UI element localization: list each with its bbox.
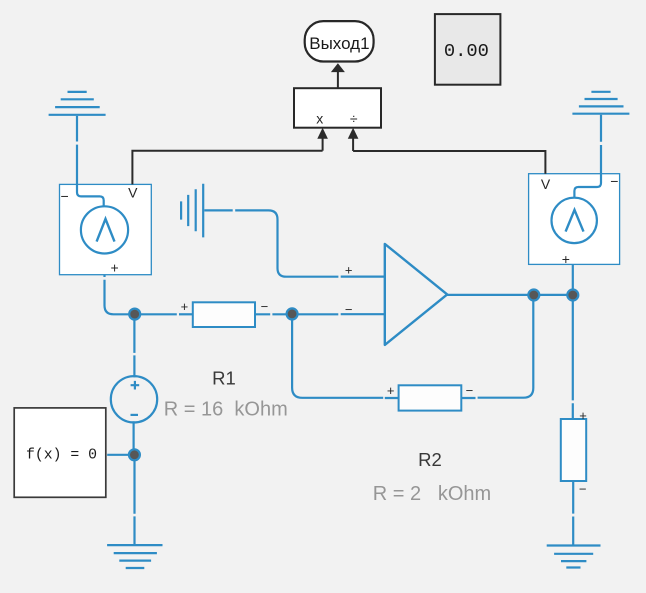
- svg-text:x: x: [316, 111, 323, 127]
- svg-text:R1: R1: [212, 368, 236, 389]
- pin label minus V1: [131, 414, 139, 416]
- node N4: [567, 290, 578, 301]
- wire node N1 down to source V1: [133, 314, 135, 377]
- wire GND2 to op-amp non-inverting input: [204, 210, 384, 276]
- node N2: [287, 308, 298, 319]
- node N5: [129, 449, 140, 460]
- node N1: [129, 309, 140, 320]
- svg-text:Выход1: Выход1: [309, 34, 369, 53]
- pin label plus V1: [131, 381, 140, 390]
- divider block U4: [294, 88, 381, 128]
- svg-text:+: +: [387, 383, 395, 398]
- svg-text:+: +: [345, 262, 353, 277]
- voltmeter U3 box (right): [529, 174, 620, 265]
- arrow into divider x input: [322, 138, 324, 151]
- ground GND2 (middle, rotated): [181, 184, 203, 238]
- svg-text:R = 16 kOhm: R = 16 kOhm: [164, 399, 288, 421]
- svg-text:R2: R2: [418, 449, 442, 470]
- svg-text:−: −: [466, 383, 474, 398]
- resistor R1 left stub: [179, 313, 193, 315]
- voltmeter U1 dial circle: [81, 206, 128, 253]
- wire V1 to node N5 and GND5: [133, 421, 136, 545]
- wire inside U1: [77, 184, 104, 206]
- wire inside U3: [574, 174, 601, 198]
- wire U1 V output to divider (black): [132, 151, 322, 185]
- voltmeter U1 box (left): [60, 184, 152, 274]
- wire R2 right up to node N3: [461, 295, 533, 398]
- svg-text:−: −: [579, 482, 587, 497]
- ground GND3 (top right, inverted): [572, 92, 629, 114]
- svg-text:−: −: [610, 173, 618, 189]
- svg-text:V: V: [128, 185, 138, 201]
- source V1 circle: [111, 376, 157, 422]
- node N3: [528, 290, 539, 301]
- svg-text:f(x) = 0: f(x) = 0: [26, 448, 97, 464]
- svg-text:+: +: [111, 260, 119, 276]
- wire R3 to GND4: [572, 481, 574, 545]
- voltmeter U1 lambda glyph: [97, 219, 115, 242]
- svg-text:−: −: [261, 299, 269, 314]
- wire U3 V output to divider (black): [353, 151, 545, 174]
- svg-text:−: −: [61, 188, 69, 204]
- svg-text:−: −: [345, 302, 353, 317]
- arrow into divider divide input: [352, 138, 354, 151]
- wire GND3 to voltmeter U3: [600, 115, 602, 174]
- svg-text:+: +: [579, 408, 587, 423]
- wire node N2 to op-amp inverting input: [292, 313, 385, 315]
- wire R1 right to node N2: [255, 313, 291, 315]
- wire node N4 up to voltmeter U3: [572, 264, 574, 295]
- ground GND5 (bottom left): [107, 545, 162, 568]
- output port Выход1: [305, 21, 374, 61]
- svg-text:+: +: [562, 251, 570, 267]
- wire F1 to node N5: [107, 454, 134, 456]
- wire op-amp output to node N3 and N4: [447, 294, 573, 296]
- ground GND1 (top left, inverted): [49, 92, 106, 115]
- block F1 f(x)=0 box: [14, 408, 106, 497]
- resistor R3 body (vertical right): [561, 419, 586, 481]
- resistor R1 body: [193, 302, 255, 327]
- svg-text:V: V: [541, 176, 551, 192]
- svg-text:÷: ÷: [350, 111, 358, 127]
- svg-text:R = 2 kOhm: R = 2 kOhm: [373, 483, 491, 505]
- wire U1 plus to node N1: [105, 275, 177, 315]
- wire node N2 down to R2: [292, 314, 399, 398]
- voltmeter U3 dial circle: [552, 198, 597, 243]
- svg-text:+: +: [181, 299, 189, 314]
- svg-text:0.00: 0.00: [444, 40, 489, 62]
- display block 0.00: [435, 14, 501, 85]
- voltmeter U3 lambda glyph: [566, 210, 584, 232]
- arrow divider to output port: [337, 72, 339, 89]
- wire node N4 down to resistor R3: [572, 295, 574, 419]
- op-amp U2 triangle: [385, 244, 447, 345]
- ground GND4 (bottom right): [547, 546, 601, 568]
- resistor R2 body: [399, 385, 462, 410]
- wire GND1 to voltmeter U1: [76, 116, 78, 184]
